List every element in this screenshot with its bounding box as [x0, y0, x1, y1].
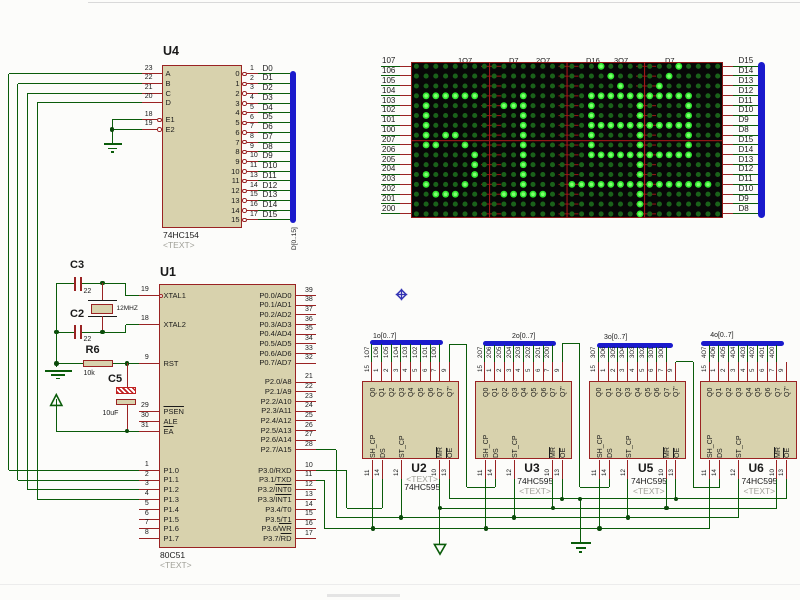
U1 pin P0.7/AD7	[296, 363, 317, 364]
U2 pin MR (10)	[439, 460, 440, 479]
MR net line with power arrow	[440, 508, 777, 509]
display right column wire D13	[723, 164, 734, 165]
U2 output bus	[370, 340, 443, 345]
display right column wire D10	[723, 194, 734, 195]
U1 pin P3.2	[296, 489, 317, 490]
crystal X1 12MHZ	[102, 283, 103, 300]
LED dot-matrix display 32x16	[411, 62, 723, 218]
U1 pin XTAL2	[139, 324, 159, 325]
display left row wire 103	[381, 105, 401, 106]
display left row wire 104	[381, 95, 401, 96]
U4 output 4 (pin 5) with bubble, wire and net label D4	[235, 109, 239, 117]
U3 pin OE (13)	[562, 460, 563, 479]
shift register U5 74HC595	[589, 381, 686, 460]
U2 pin OE (13)	[449, 460, 450, 479]
U4 output 6 (pin 7) with bubble, wire and net label D6	[235, 129, 239, 137]
display left row wire 202	[381, 194, 401, 195]
U2 SH_CP drop	[372, 479, 373, 529]
U4 pin E2 (19)	[142, 129, 157, 130]
junction U3 ST_CP	[514, 479, 515, 518]
U5 output bus	[597, 343, 673, 348]
U5 pin MR (10)	[666, 460, 667, 479]
U1 pin P2.4/A12	[296, 420, 317, 421]
U1 pin P3.7	[296, 538, 317, 539]
display module internals (dots, dividers, pins)	[411, 62, 723, 219]
U4 output 8 (pin 9) with bubble, wire and net label D8	[235, 148, 239, 156]
U6 pin MR (10)	[776, 460, 777, 479]
U1 pin P0.6/AD6	[296, 353, 317, 354]
U2 pin Q7' (9)	[449, 362, 450, 381]
display left row wire 201	[381, 203, 401, 204]
U4 pin B (22)	[142, 83, 162, 84]
U6 pin ST_CP (12)	[738, 460, 739, 479]
U5 pin Q5 (5)	[647, 362, 648, 381]
U6 pin Q1 (1)	[718, 362, 719, 381]
U3 pin Q0 (15)	[484, 362, 485, 381]
U1 pin P2.7/A15	[296, 449, 317, 450]
display left row wire 203	[381, 184, 401, 185]
display right column wire D12	[723, 174, 734, 175]
U6 pin Q2 (2)	[728, 362, 729, 381]
wire E1/E2 to ground	[112, 119, 142, 120]
U2 pin Q0 (15)	[371, 362, 372, 381]
U3 pin ST_CP (12)	[514, 460, 515, 479]
display right column wire D8	[723, 135, 734, 136]
U3 pin Q2 (2)	[504, 362, 505, 381]
U2 pin ST_CP (12)	[401, 460, 402, 479]
U6 pin Q6 (6)	[767, 362, 768, 381]
U1 pin P3.3	[296, 499, 317, 500]
U1 pin P1.7	[139, 538, 159, 539]
SH_CP net line	[324, 528, 710, 529]
U4 output 3 (pin 4) with bubble, wire and net label D3	[235, 100, 239, 108]
U1 pin P0.4/AD4	[296, 334, 317, 335]
display left row wire 101	[381, 125, 401, 126]
display left row wire 100	[381, 135, 401, 136]
U1 pin P0.1/AD1	[296, 305, 317, 306]
U3 pin Q4 (4)	[523, 362, 524, 381]
U5 pin Q4 (4)	[637, 362, 638, 381]
U4 output 5 (pin 6) with bubble, wire and net label D5	[235, 119, 239, 127]
U3 pin Q1 (1)	[494, 362, 495, 381]
OE net line	[449, 498, 786, 499]
shift register U2 74HC595	[362, 381, 459, 460]
U2 pin Q6 (6)	[430, 362, 431, 381]
U2 pin Q5 (5)	[420, 362, 421, 381]
U4 pin D (20)	[142, 102, 162, 103]
junction U5 OE	[675, 479, 676, 499]
power arrow VCC	[48, 393, 65, 408]
U1 pin P2.3/A11	[296, 411, 317, 412]
U1 pin P1.3	[139, 499, 159, 500]
U1 pin ALE	[139, 421, 159, 422]
display left row wire 207	[381, 144, 401, 145]
display right column wire D9	[723, 125, 734, 126]
display right column wire D15	[723, 66, 734, 67]
U2 pin DS (14)	[382, 460, 383, 479]
U3 pin DS (14)	[495, 460, 496, 479]
ground for U4 enables	[104, 143, 122, 145]
U6 pin OE (13)	[786, 460, 787, 479]
U5 pin SH_CP (11)	[599, 460, 600, 479]
U1 pin P1.6	[139, 528, 159, 529]
U4 output 15 (pin 17) with bubble, wire and net label D15	[231, 216, 239, 224]
U4 output 1 (pin 2) with bubble, wire and net label D1	[235, 80, 239, 88]
capacitor C5 electrolytic	[108, 374, 122, 385]
wire VCC to EA	[56, 431, 139, 432]
U1 pin P2.1/A9	[296, 391, 317, 392]
U1 pin P0.2/AD2	[296, 314, 317, 315]
junction U5 MR	[666, 479, 667, 508]
display right column wire D13	[723, 85, 734, 86]
U1 pin P1.2	[139, 489, 159, 490]
wire P3.1 to SH_CP net	[316, 480, 324, 481]
junction U5 SH_CP	[599, 479, 600, 529]
U1 pin P0.3/AD3	[296, 324, 317, 325]
U1 pin P3.4	[296, 509, 317, 510]
U4 output 0 (pin 1) with bubble, wire and net label D0	[235, 70, 239, 78]
junction U3 MR	[552, 479, 553, 508]
U4 output 10 (pin 11) with bubble, wire and net label D10	[231, 168, 239, 176]
wire P2.7 to ST_CP net	[316, 449, 336, 450]
U1 pin P2.2/A10	[296, 401, 317, 402]
U2 pin Q3 (3)	[400, 362, 401, 381]
U1 pin P3.6	[296, 528, 317, 529]
U1 pin P2.0/A8	[296, 382, 317, 383]
U4 pin C (21)	[142, 93, 162, 94]
wire U4 D to U1 P1.3	[37, 102, 142, 103]
U6 pin Q7' (9)	[786, 362, 787, 381]
U5 pin OE (13)	[675, 460, 676, 479]
U6 pin DS (14)	[719, 460, 720, 479]
U5 pin ST_CP (12)	[627, 460, 628, 479]
U4 output 11 (pin 13) with bubble, wire and net label D11	[232, 177, 240, 185]
U1 pin P3.0	[296, 470, 317, 471]
origin marker	[395, 288, 408, 301]
U1 pin P3.5	[296, 519, 317, 520]
wire U4 B to U1 P1.1	[18, 83, 142, 84]
U3 pin Q7 (7)	[552, 362, 553, 381]
U1 pin P2.6/A14	[296, 440, 317, 441]
display left row wire 204	[381, 174, 401, 175]
U4 pin A (23)	[142, 73, 162, 74]
U3 pin SH_CP (11)	[485, 460, 486, 479]
U5 pin Q0 (15)	[598, 362, 599, 381]
ST_CP net line	[336, 517, 514, 518]
U2 pin Q7 (7)	[439, 362, 440, 381]
U1 pin EA	[139, 431, 159, 432]
U2 pin SH_CP (11)	[372, 460, 373, 479]
wire U4 A to U1 P1.0	[9, 73, 143, 74]
U1 pin P1.1	[139, 480, 159, 481]
U1 pin RST	[139, 363, 159, 364]
U6 pin Q5 (5)	[757, 362, 758, 381]
bus right of display	[758, 62, 765, 218]
display right column wire D11	[723, 184, 734, 185]
ground below R6	[45, 370, 72, 372]
U3 pin Q3 (3)	[513, 362, 514, 381]
wire P3.0 to U2 DS	[316, 470, 347, 471]
U1 pin P1.0	[139, 470, 159, 471]
wire C2 to XTAL2	[103, 332, 126, 333]
display right column wire D12	[723, 95, 734, 96]
shift register U6 74HC595	[700, 381, 797, 460]
U4 output 7 (pin 8) with bubble, wire and net label D7	[235, 139, 239, 147]
display right column wire D8	[723, 213, 734, 214]
display left row wire 107	[381, 66, 401, 67]
capacitor C3	[70, 260, 84, 271]
U2 pin Q1 (1)	[381, 362, 382, 381]
display left row wire 106	[381, 75, 401, 76]
U5 pin Q7 (7)	[666, 362, 667, 381]
cascade wire Q7' to DS 3	[675, 361, 676, 364]
junction U3 OE	[562, 479, 563, 499]
U1 pin P3.1	[296, 480, 317, 481]
display left row wire 205	[381, 164, 401, 165]
cascade wire Q7' to DS 2	[562, 344, 563, 363]
decoder U4 74HC154	[162, 65, 242, 229]
U4 output 2 (pin 3) with bubble, wire and net label D2	[235, 90, 239, 98]
U4 output 14 (pin 16) with bubble, wire and net label D14	[231, 207, 239, 215]
microcontroller U1 80C51	[159, 284, 296, 548]
U3 pin MR (10)	[552, 460, 553, 479]
U4 output 9 (pin 10) with bubble, wire and net label D9	[235, 158, 239, 166]
display left row wire 206	[381, 154, 401, 155]
U3 output bus	[483, 341, 556, 346]
U1 pin P0.0/AD0	[296, 295, 317, 296]
junction U5 ST_CP	[627, 479, 628, 518]
U3 pin Q7' (9)	[562, 362, 563, 381]
U6 pin Q4 (4)	[747, 362, 748, 381]
U6 pin Q7 (7)	[776, 362, 777, 381]
U2 MR junction dot	[438, 506, 442, 510]
U3 pin Q6 (6)	[543, 362, 544, 381]
display left row wire 102	[381, 115, 401, 116]
shift register U3 74HC595	[475, 381, 572, 460]
U1 pin XTAL1	[139, 295, 159, 296]
U6 pin Q3 (3)	[738, 362, 739, 381]
display right column wire D9	[723, 203, 734, 204]
U5 pin Q1 (1)	[608, 362, 609, 381]
U2 pin Q2 (2)	[391, 362, 392, 381]
display left row wire 105	[381, 85, 401, 86]
display right column wire D11	[723, 105, 734, 106]
U1 pin P0.5/AD5	[296, 343, 317, 344]
U3 pin Q5 (5)	[533, 362, 534, 381]
U1 pin P1.4	[139, 509, 159, 510]
wire C3 to XTAL1	[103, 283, 126, 284]
display right column wire D14	[723, 154, 734, 155]
U5 pin Q6 (6)	[656, 362, 657, 381]
bottom divider	[0, 584, 800, 585]
U4 pin E1 (18)	[142, 119, 157, 120]
U6 output bus	[701, 341, 784, 346]
U1 pin P2.5/A13	[296, 430, 317, 431]
resistor R6 10k	[86, 345, 100, 356]
U5 pin DS (14)	[609, 460, 610, 479]
bus D[0..15] at U4 outputs	[290, 71, 296, 223]
U2 ST_CP drop	[401, 479, 402, 518]
U5 pin Q3 (3)	[627, 362, 628, 381]
wire U4 C to U1 P1.2	[28, 93, 143, 94]
display right column wire D15	[723, 144, 734, 145]
U5 pin Q2 (2)	[617, 362, 618, 381]
display left row wire 200	[381, 213, 401, 214]
junction U3 SH_CP	[485, 479, 486, 529]
frame line top	[88, 2, 800, 3]
U6 pin Q0 (15)	[709, 362, 710, 381]
U6 pin SH_CP (11)	[709, 460, 710, 479]
U4 output 12 (pin 14) with bubble, wire and net label D12	[231, 187, 239, 195]
U4 output 13 (pin 15) with bubble, wire and net label D13	[231, 197, 239, 205]
capacitor C2	[70, 309, 84, 320]
U1 pin P1.5	[139, 519, 159, 520]
ground for OE net	[580, 499, 581, 542]
cascade wire Q7' to DS 1	[449, 345, 450, 363]
display right column wire D14	[723, 75, 734, 76]
display right column wire D10	[723, 115, 734, 116]
U1 pin PSEN	[139, 411, 159, 412]
U2 pin Q4 (4)	[410, 362, 411, 381]
display top clipped net labels	[458, 57, 472, 65]
U5 pin Q7' (9)	[675, 362, 676, 381]
left vertical gnd rail	[56, 283, 57, 367]
